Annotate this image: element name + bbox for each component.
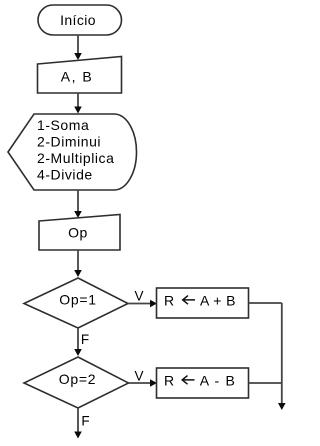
wire: start to input A,B — [74, 35, 82, 60]
wire: R<-A+B to right rail — [249, 302, 282, 304]
wire: right rail down with arrow — [278, 303, 286, 410]
svg-text:Início: Início — [60, 12, 96, 28]
svg-text:F: F — [81, 413, 89, 428]
wire: Op=2 false down with arrow — [74, 408, 82, 439]
input card: A, B — [38, 57, 122, 94]
wire: Op to decision 1 — [74, 250, 82, 277]
svg-text:Op=2: Op=2 — [59, 371, 96, 387]
svg-text:Op: Op — [68, 224, 88, 240]
process rect: R <- A - B — [157, 368, 249, 398]
svg-text:F: F — [81, 332, 89, 347]
svg-text:2-Diminui: 2-Diminui — [37, 133, 101, 149]
wire: A,B to menu — [74, 93, 82, 114]
svg-text:V: V — [134, 368, 143, 383]
svg-text:A - B: A - B — [200, 372, 236, 388]
svg-text:V: V — [134, 288, 143, 303]
display shape: menu 1-Soma / 2-Diminui / 2-Multiplica / 4-Divide — [8, 114, 137, 190]
svg-text:4-Divide: 4-Divide — [37, 166, 93, 182]
svg-text:2-Multiplica: 2-Multiplica — [37, 150, 114, 166]
svg-text:A + B: A + B — [200, 292, 236, 308]
svg-text:R: R — [164, 292, 174, 308]
wire: Op=1 to R&#8592;A+B — [128, 300, 157, 308]
decision diamond: Op=1 — [24, 278, 128, 328]
svg-text:R: R — [164, 372, 174, 388]
input card: Op — [39, 215, 120, 251]
terminator: Início — [38, 5, 122, 35]
svg-text:A, B: A, B — [61, 69, 93, 85]
svg-text:Op=1: Op=1 — [59, 292, 96, 308]
wire: menu to Op — [74, 190, 82, 218]
process rect: R <- A + B — [157, 288, 249, 318]
wire: R<-A-B to right rail — [249, 382, 282, 384]
svg-text:1-Soma: 1-Soma — [37, 117, 89, 133]
wire: Op=1 false to Op=2 — [74, 328, 82, 356]
decision diamond: Op=2 — [24, 357, 129, 408]
wire: Op=2 to R&#8592;A-B — [129, 379, 158, 387]
